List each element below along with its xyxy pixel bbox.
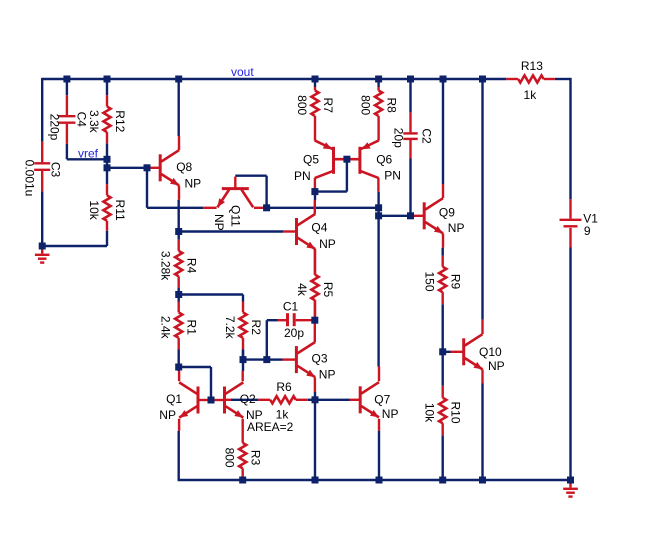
- svg-text:R4: R4: [185, 258, 199, 274]
- svg-text:Q4: Q4: [311, 220, 327, 234]
- svg-text:800: 800: [295, 95, 309, 115]
- wire R6 node down to rail: [314, 400, 316, 480]
- resistor R1: [159, 302, 199, 350]
- junction Q9 base row: [375, 212, 382, 219]
- junction Q11 collector: [263, 204, 270, 211]
- transistor Q10: [464, 334, 505, 373]
- svg-text:NP: NP: [319, 367, 336, 381]
- wire Q7 collector red lead: [378, 367, 380, 382]
- ground right: [563, 483, 578, 497]
- svg-text:800: 800: [223, 448, 237, 468]
- wire Q2 collector red lead: [241, 371, 243, 381]
- resistor R5: [295, 249, 335, 320]
- wire Q4 emitter red lead to R5: [314, 249, 316, 275]
- junction R6 right node: [312, 396, 319, 403]
- svg-text:3.3k: 3.3k: [87, 110, 101, 134]
- svg-text:C3: C3: [49, 162, 63, 178]
- wire Q11 base red lead: [234, 177, 236, 189]
- svg-text:vref: vref: [78, 146, 99, 160]
- svg-text:Q9: Q9: [439, 205, 455, 219]
- wire Q9 base red lead: [414, 215, 425, 217]
- resistor R9: [423, 256, 463, 304]
- wire R5 bottom red lead: [314, 300, 316, 320]
- wire Q10 collector red lead: [481, 320, 483, 334]
- svg-text:R11: R11: [113, 200, 127, 221]
- svg-text:Q1: Q1: [166, 392, 182, 406]
- svg-text:Q8: Q8: [176, 160, 192, 174]
- svg-text:Q6: Q6: [376, 153, 392, 167]
- capacitor C1: [288, 313, 295, 326]
- wire Q2 collector up to R2: [242, 350, 244, 372]
- wire ground node to R11 bottom: [42, 245, 107, 247]
- svg-text:C2: C2: [420, 128, 434, 144]
- wire bottom rail: [178, 479, 571, 481]
- svg-text:Q3: Q3: [312, 351, 328, 365]
- wire rail to C2: [409, 79, 411, 112]
- wire Q3 emitter to R6 node: [314, 392, 316, 400]
- wire to Q11 emitter: [147, 207, 203, 209]
- wire vref node to Q8 base: [107, 167, 149, 169]
- capacitor C2: [403, 112, 417, 158]
- transistor Q8: [160, 150, 201, 190]
- wire rail corner to V1: [569, 78, 571, 199]
- wire Q10 base node tie: [443, 351, 451, 353]
- junction C1 right node: [311, 317, 318, 324]
- svg-text:R12: R12: [113, 110, 127, 132]
- wire rail to R8: [377, 79, 379, 87]
- wire rail to C4: [66, 79, 68, 95]
- junction Q10 base node: [439, 348, 446, 355]
- wire C4 bottom to vref: [66, 144, 68, 159]
- svg-text:AREA=2: AREA=2: [247, 420, 294, 434]
- transistor Q2: [225, 382, 294, 433]
- transistor Q1: [159, 382, 198, 422]
- transistor Q5: [294, 140, 334, 183]
- svg-text:C4: C4: [74, 112, 88, 128]
- wire Q5 Q6 base bridge: [334, 158, 360, 161]
- wire C1 node to Q3 base: [267, 358, 283, 360]
- battery V1: [560, 199, 582, 247]
- junction Q5 Q6 bases: [343, 156, 350, 163]
- wire Q7 base red lead: [350, 399, 361, 401]
- wire over to Q5 collector node: [315, 190, 347, 192]
- svg-text:2.4k: 2.4k: [159, 316, 173, 340]
- svg-text:Q11: Q11: [229, 205, 243, 227]
- wire R1 bottom: [177, 350, 179, 368]
- svg-text:R10: R10: [449, 401, 463, 423]
- wire R4 bottom: [177, 288, 179, 295]
- wire Q11 base up and over: [235, 174, 266, 176]
- wire Q9 base row: [379, 215, 414, 217]
- wire vout top rail: [42, 78, 506, 80]
- svg-text:1k: 1k: [524, 88, 538, 102]
- resistor R12: [87, 95, 127, 143]
- junction Q6 collector node: [375, 204, 382, 211]
- wire vref horizontal: [67, 158, 107, 160]
- wire R6 right to Q3 emitter node: [308, 399, 315, 401]
- svg-text:R2: R2: [249, 320, 263, 336]
- wire down to R2: [242, 295, 244, 302]
- transistor Q9: [424, 198, 464, 235]
- svg-text:NP: NP: [212, 214, 226, 231]
- wire Q9 collector red lead: [442, 184, 444, 198]
- wire R2 node to C1 node: [243, 358, 267, 360]
- wire base bridge down: [346, 159, 348, 191]
- ground left: [35, 249, 50, 263]
- wire R10 bottom to rail: [442, 435, 444, 480]
- resistor R4: [159, 240, 199, 288]
- wire Q7 emitter to rail: [378, 431, 380, 480]
- wire R9 bottom to Q10 base node: [442, 304, 444, 352]
- junction Q5 collector node: [311, 188, 318, 195]
- svg-text:NP: NP: [382, 407, 399, 421]
- junction ground left node: [39, 243, 46, 250]
- wire vref node down to R11: [106, 159, 108, 184]
- wire rail to R12: [106, 79, 108, 95]
- capacitor C3: [34, 142, 50, 192]
- wire Q4 collector blue stub: [314, 192, 316, 200]
- wire C2 bottom to Q9 base node: [409, 159, 411, 216]
- svg-text:R13: R13: [521, 59, 543, 73]
- svg-text:R1: R1: [185, 320, 199, 336]
- wire Q6 collector red lead: [377, 178, 379, 192]
- svg-text:NP: NP: [319, 237, 336, 251]
- wire Q1 emitter down to rail: [177, 431, 179, 480]
- wire Q8 base junction down: [146, 168, 148, 208]
- wire C1 node up: [266, 320, 268, 359]
- wire C1 right red lead: [296, 319, 315, 321]
- wire Q1 base red lead: [198, 399, 209, 401]
- junction R2 bottom: [240, 356, 247, 363]
- junction vref node: [104, 156, 111, 163]
- wire Q3 collector red lead: [314, 320, 316, 342]
- svg-text:R8: R8: [384, 98, 398, 114]
- svg-text:R9: R9: [449, 274, 463, 290]
- wire rail to Q10 collector: [481, 79, 483, 320]
- svg-text:PN: PN: [294, 169, 311, 183]
- resistor R11: [87, 184, 127, 231]
- resistor R2: [223, 302, 263, 350]
- wire Q5 collector red lead: [314, 178, 316, 192]
- wire node down to Q9 base row: [377, 208, 379, 216]
- wire Q8 base red lead: [149, 167, 160, 169]
- wire down to Q1 Q2 bases: [210, 367, 212, 400]
- transistor Q6: [360, 140, 401, 182]
- svg-text:9: 9: [584, 224, 591, 238]
- wire C3 bottom to ground node: [41, 191, 43, 246]
- svg-text:800: 800: [358, 95, 372, 115]
- wire C1 left red lead: [278, 319, 286, 321]
- wire rail to R7: [314, 79, 316, 87]
- wire Q1 emitter red lead: [178, 419, 180, 431]
- wire R4 node to R1: [177, 295, 179, 302]
- svg-text:C1: C1: [283, 300, 299, 314]
- wire Q2 base red lead: [214, 399, 225, 401]
- svg-text:3.28k: 3.28k: [159, 251, 173, 281]
- junction Q8 emitter node: [175, 228, 182, 235]
- wire top rail right of R13: [555, 78, 571, 80]
- svg-text:R5: R5: [321, 282, 335, 298]
- junction R1 bottom: [175, 364, 182, 371]
- transistor Q11: [212, 189, 253, 231]
- resistor R8: [358, 87, 398, 141]
- svg-text:7.2k: 7.2k: [223, 316, 237, 340]
- svg-text:0.001u: 0.001u: [23, 160, 37, 197]
- junction Q1 Q2 bases: [208, 397, 215, 404]
- svg-text:NP: NP: [185, 177, 202, 191]
- svg-text:Q5: Q5: [303, 153, 319, 167]
- transistor Q7: [360, 382, 398, 421]
- svg-text:10k: 10k: [87, 200, 101, 220]
- wire left drop to C3: [41, 78, 43, 142]
- junction R4 bottom: [175, 291, 182, 298]
- wire Q8 emitter down to node: [177, 200, 179, 232]
- wire Q10 emitter to rail: [481, 384, 483, 481]
- wire Q7 emitter red lead: [378, 419, 380, 431]
- svg-text:NP: NP: [488, 359, 505, 373]
- svg-text:20p: 20p: [391, 128, 405, 148]
- wire Q8 emitter red lead: [178, 185, 180, 199]
- resistor R3: [223, 419, 263, 480]
- capacitor C4: [58, 95, 75, 144]
- wire rail to Q9 collector: [442, 79, 444, 184]
- wire Q8 emitter node to Q4 base: [179, 230, 283, 232]
- svg-text:220p: 220p: [47, 114, 61, 141]
- svg-text:NP: NP: [159, 408, 176, 422]
- wire Q8 collector red lead: [178, 136, 180, 150]
- resistor R13: [506, 59, 555, 102]
- wire R6 node to Q7 base: [315, 399, 350, 401]
- wire Q9 emitter red lead: [442, 233, 444, 247]
- junction C1 left node: [263, 356, 270, 363]
- wire Q10 base node to R10: [442, 352, 444, 386]
- svg-text:NP: NP: [448, 221, 465, 235]
- svg-text:R3: R3: [249, 450, 263, 466]
- wire Q4 collector red lead: [314, 200, 316, 214]
- svg-text:150: 150: [423, 271, 437, 291]
- transistor Q3: [296, 342, 335, 381]
- wire R1 node to bases: [179, 366, 211, 368]
- resistor R6: [258, 380, 308, 422]
- resistor R10: [423, 386, 463, 435]
- junction C2 bottom: [407, 212, 414, 219]
- wire Q11 collector to Q6 collector node: [267, 207, 379, 209]
- transistor Q4: [297, 214, 336, 251]
- svg-text:PN: PN: [384, 169, 401, 183]
- wire C1 left lead: [267, 319, 278, 321]
- wire Q3 emitter red lead: [314, 377, 316, 392]
- svg-text:Q7: Q7: [374, 393, 390, 407]
- wire Q10 base red lead: [451, 351, 464, 353]
- wire Q11 collector red lead: [254, 207, 267, 209]
- svg-text:Q2: Q2: [240, 392, 256, 406]
- wire Q9 emitter to R9: [442, 248, 444, 256]
- wire Q11 base tie down to collector: [265, 176, 267, 208]
- svg-text:10k: 10k: [423, 403, 437, 423]
- junction dots bottom rail: [239, 477, 574, 484]
- wire Q1 collector red lead: [178, 371, 180, 381]
- wire Q6 collector down to node: [377, 192, 379, 208]
- wire Q1 base junction tie: [209, 399, 215, 401]
- wire V1 bottom to bottom rail: [569, 248, 571, 481]
- junction Q8 base tee: [144, 164, 151, 171]
- svg-text:R6: R6: [276, 380, 292, 394]
- wire Q11 emitter red lead: [203, 207, 216, 209]
- wire R12 bottom to vref node: [106, 143, 108, 159]
- svg-text:4k: 4k: [295, 283, 309, 297]
- svg-text:vout: vout: [231, 65, 254, 79]
- wire long vertical to Q7 collector: [377, 216, 379, 367]
- wire Q2 bar to R6 red stub: [225, 399, 232, 401]
- wire R11 bottom lead: [106, 231, 108, 246]
- resistor R7: [295, 87, 335, 141]
- wire Q10 emitter red lead: [481, 369, 483, 383]
- wire rail to Q8 collector: [177, 79, 179, 136]
- svg-text:20p: 20p: [284, 326, 304, 340]
- svg-text:Q10: Q10: [479, 345, 502, 359]
- svg-text:R7: R7: [321, 98, 335, 114]
- wire R1 node down to Q1 collector: [177, 367, 179, 371]
- wire Q3 base red lead: [283, 358, 297, 360]
- junction Q8 base node: [104, 164, 111, 171]
- wire R4 node to R2 top: [179, 293, 243, 295]
- wire node to R4: [177, 232, 179, 240]
- wire Q2 to R6: [231, 399, 258, 401]
- wire R2 bottom node: [242, 350, 244, 360]
- junction dots top rail: [63, 76, 486, 83]
- wire Q4 base red lead: [283, 230, 297, 232]
